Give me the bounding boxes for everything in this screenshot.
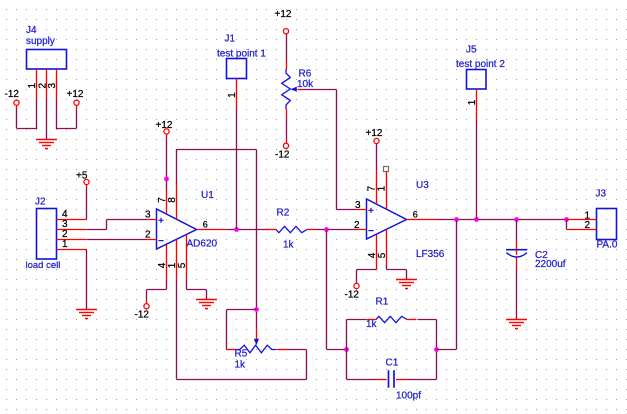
svg-text:J1: J1 — [225, 34, 236, 45]
svg-text:1k: 1k — [235, 360, 247, 371]
svg-text:J5: J5 — [466, 45, 477, 56]
svg-text:-12: -12 — [5, 89, 20, 100]
svg-text:R5: R5 — [235, 349, 248, 360]
svg-text:AD620: AD620 — [187, 239, 218, 250]
svg-text:10k: 10k — [297, 79, 314, 90]
svg-text:3: 3 — [355, 200, 361, 211]
svg-text:1k: 1k — [283, 240, 295, 251]
svg-text:R2: R2 — [277, 208, 290, 219]
svg-text:1: 1 — [227, 92, 238, 98]
svg-text:supply: supply — [26, 36, 55, 47]
svg-text:+12: +12 — [67, 89, 84, 100]
svg-text:1k: 1k — [366, 319, 378, 330]
svg-text:1: 1 — [467, 99, 478, 105]
svg-text:3: 3 — [145, 210, 151, 221]
svg-text:C1: C1 — [386, 358, 399, 369]
svg-text:-12: -12 — [345, 290, 360, 301]
svg-text:test point 2: test point 2 — [456, 59, 505, 70]
svg-text:+12: +12 — [275, 9, 292, 20]
svg-text:8: 8 — [167, 197, 178, 203]
svg-text:1: 1 — [62, 239, 68, 250]
svg-text:J4: J4 — [26, 25, 37, 36]
svg-text:5: 5 — [177, 262, 188, 268]
svg-text:1: 1 — [377, 185, 388, 191]
svg-text:-12: -12 — [275, 150, 290, 161]
svg-text:2200uf: 2200uf — [535, 259, 566, 270]
svg-text:J2: J2 — [35, 197, 46, 208]
svg-text:+12: +12 — [366, 128, 383, 139]
svg-text:+5: +5 — [76, 170, 88, 181]
svg-text:R1: R1 — [376, 297, 389, 308]
svg-text:6: 6 — [413, 210, 418, 220]
svg-text:-12: -12 — [135, 310, 150, 321]
svg-text:100pf: 100pf — [396, 391, 421, 402]
svg-text:R6: R6 — [299, 69, 312, 80]
svg-text:U1: U1 — [201, 190, 214, 201]
svg-text:LF356: LF356 — [416, 249, 445, 260]
svg-text:test point 1: test point 1 — [217, 49, 266, 60]
svg-text:load cell: load cell — [26, 260, 61, 271]
svg-text:U3: U3 — [416, 180, 429, 191]
svg-text:6: 6 — [203, 220, 208, 230]
svg-text:+12: +12 — [156, 120, 173, 131]
svg-text:3: 3 — [47, 82, 58, 88]
svg-text:PA.0: PA.0 — [597, 240, 618, 251]
svg-text:2: 2 — [145, 230, 151, 241]
svg-text:J3: J3 — [596, 189, 607, 200]
svg-text:5: 5 — [377, 252, 388, 258]
svg-text:2: 2 — [354, 220, 360, 231]
svg-text:2: 2 — [584, 220, 590, 231]
